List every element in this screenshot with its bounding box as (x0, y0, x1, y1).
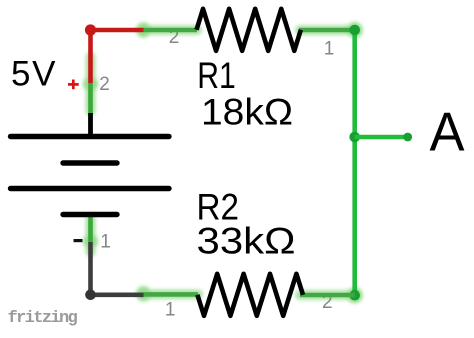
wire green to R2 pin 1 (144, 292, 199, 297)
wire gray battery minus vertical (88, 242, 93, 295)
wire green battery plus pin segment (88, 83, 93, 114)
resistor R2 (197, 274, 303, 316)
bendpoint red corner (85, 24, 96, 35)
resistor R1 (197, 9, 301, 51)
svg-text:5V: 5V (11, 55, 56, 94)
bendpoint gray bottom left corner (85, 290, 96, 301)
wire green R1 pin 1 to right corner (299, 28, 355, 33)
wire red battery positive vertical (88, 30, 93, 83)
svg-text:fritzing: fritzing (8, 309, 78, 328)
svg-text:R1: R1 (197, 55, 236, 96)
endpoint node A (403, 133, 412, 142)
svg-text:1: 1 (165, 300, 176, 321)
connection glow battery negative pin (83, 218, 98, 252)
connection glow R1 pin 1 to corner (300, 22, 363, 38)
wire green stub to node A (355, 135, 408, 140)
battery BT1 top pin (88, 113, 93, 138)
battery BT1 plate short upper (63, 160, 117, 165)
wire green R2 pin 2 to corner (300, 293, 355, 298)
svg-text:1: 1 (100, 232, 111, 253)
svg-text:1: 1 (324, 38, 335, 59)
svg-text:18kΩ: 18kΩ (201, 92, 293, 133)
connection glow R2 pin 2 to corner (300, 287, 363, 303)
connection glow battery positive pin (83, 57, 98, 111)
wire green to R1 pin 2 (144, 28, 198, 33)
svg-text:A: A (430, 101, 465, 163)
connection glow wire to R2 pin 1 (136, 286, 198, 301)
battery minus sign (74, 239, 83, 242)
svg-text:33kΩ: 33kΩ (197, 221, 296, 262)
wire gray bottom horizontal (91, 292, 144, 297)
bendpoint green bottom right (349, 290, 360, 301)
wire red battery positive horizontal (91, 28, 144, 33)
svg-text:2: 2 (99, 74, 110, 95)
battery BT1 plate long top (11, 134, 170, 139)
wire green right vertical bus (352, 30, 357, 295)
junction node to A (349, 132, 360, 143)
battery BT1 plate long bottom (11, 186, 170, 191)
bendpoint green top right (349, 25, 360, 36)
battery BT1 plate short lower (63, 212, 117, 217)
connection glow wire to R1 pin 2 (136, 23, 197, 38)
wire green battery minus pin segment (88, 215, 93, 242)
battery plus sign (68, 83, 79, 86)
